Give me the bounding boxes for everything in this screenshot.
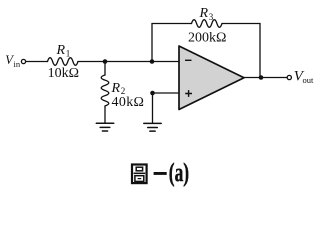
svg-text:40kΩ: 40kΩ bbox=[112, 95, 145, 110]
svg-text:out: out bbox=[303, 75, 315, 85]
op-amp minus pin symbol bbox=[185, 59, 192, 61]
svg-text:200kΩ: 200kΩ bbox=[188, 30, 226, 45]
resistor R2 bbox=[101, 75, 109, 106]
wire R2 bottom lead to ground bbox=[104, 106, 106, 123]
terminal Vin bbox=[21, 59, 25, 63]
resistor R1 bbox=[48, 58, 79, 66]
terminal Vout bbox=[287, 75, 291, 79]
wire feedback left vertical bbox=[151, 24, 153, 62]
ground (below R2) bbox=[96, 123, 113, 131]
svg-text:R: R bbox=[56, 43, 66, 58]
ground (below + input) bbox=[144, 123, 161, 131]
svg-text:3: 3 bbox=[209, 12, 214, 22]
wire feedback top right bbox=[222, 23, 260, 25]
wire non-inverting input bbox=[153, 92, 180, 94]
op-amp plus pin symbol bbox=[185, 90, 192, 97]
svg-text:R: R bbox=[111, 81, 121, 96]
wire R2 top lead bbox=[104, 62, 106, 76]
node: junction feedback/inverting line bbox=[150, 59, 155, 64]
caption glyph: 一 bbox=[154, 172, 167, 175]
caption glyph: 圖 bbox=[132, 165, 147, 184]
svg-text:R: R bbox=[199, 6, 209, 21]
svg-text:10kΩ: 10kΩ bbox=[48, 66, 79, 81]
wire R1 to op-amp inverting input bbox=[78, 61, 179, 63]
wire feedback right vertical bbox=[259, 24, 261, 78]
node: junction R1/R2 bbox=[103, 59, 108, 64]
wire down to ground from + input bbox=[152, 93, 154, 123]
op-amp U1 bbox=[179, 46, 244, 110]
node: output junction bbox=[259, 75, 264, 80]
wire op-amp output bbox=[244, 77, 287, 79]
wire Vin terminal to R1 bbox=[26, 61, 48, 63]
wire feedback top left bbox=[152, 23, 192, 25]
resistor R3 bbox=[192, 20, 223, 28]
svg-text:1: 1 bbox=[66, 49, 71, 59]
svg-text:(a): (a) bbox=[169, 158, 189, 187]
svg-text:in: in bbox=[14, 59, 21, 69]
node: corner + input / ground bbox=[150, 91, 155, 96]
